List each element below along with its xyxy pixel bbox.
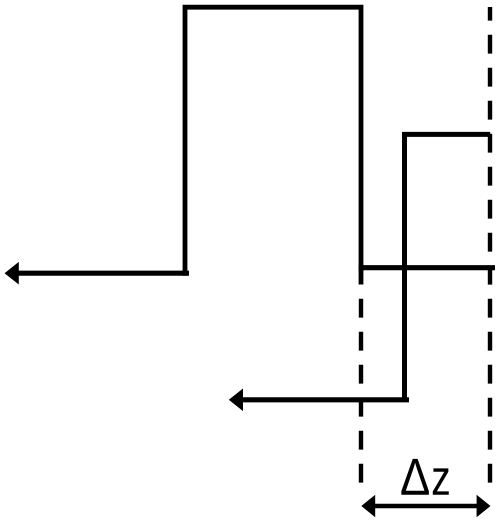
reflected pulse P2 outline: [405, 134, 491, 401]
arrowhead: dimension left: [361, 495, 375, 517]
label Δz: [401, 459, 448, 495]
wire: reflected baseline: [242, 397, 409, 402]
arrowhead: dimension right: [477, 495, 491, 517]
dashed boundary line B1 (left interface): [359, 299, 363, 483]
arrowhead: incident direction (left): [5, 262, 19, 285]
incident pulse P1 outline: [185, 7, 361, 284]
wire: incident baseline: [17, 271, 189, 276]
wire: dimension line for Δz: [374, 504, 478, 509]
wire: transmitted baseline: [359, 265, 495, 270]
dashed boundary line B2 (right interface): [488, 7, 492, 483]
arrowhead: reflected direction (left): [229, 389, 243, 412]
